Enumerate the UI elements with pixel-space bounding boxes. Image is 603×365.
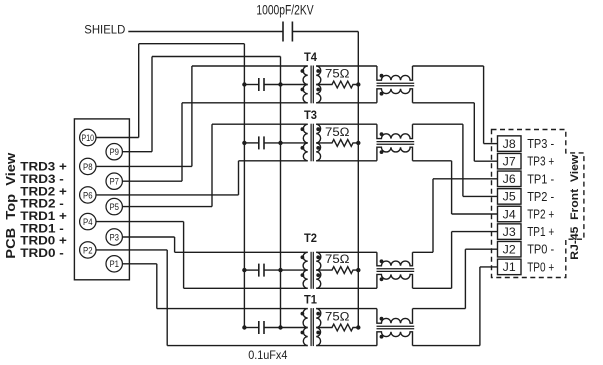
wire cap C4 left lead: [244, 84, 258, 86]
svg-text:P10: P10: [82, 133, 95, 144]
wire P1 to T1 top: [122, 263, 156, 265]
svg-text:T4: T4: [304, 50, 317, 64]
connector pin J7: [498, 153, 522, 169]
choke L4 common-mode: [377, 66, 413, 80]
svg-text:TP2 +: TP2 +: [527, 207, 554, 222]
svg-text:J7: J7: [503, 155, 516, 169]
wire P6 to T3 bottom: [96, 194, 239, 196]
wire right bus vertical: [280, 57, 282, 328]
svg-text:75Ω: 75Ω: [325, 125, 350, 139]
resistor R3 75ohm: [316, 140, 358, 147]
wire cap C3 right lead to center tap: [264, 142, 308, 144]
svg-text:P8: P8: [83, 162, 93, 173]
svg-text:P5: P5: [109, 202, 119, 213]
wire T3 secondary top to choke: [316, 123, 377, 125]
svg-text:TRD2 +: TRD2 +: [20, 186, 67, 198]
svg-text:P9: P9: [109, 147, 119, 158]
svg-text:TP0 +: TP0 +: [527, 259, 554, 274]
pin P3: [106, 229, 122, 245]
svg-text:P2: P2: [83, 245, 93, 256]
choke L2 common-mode: [377, 252, 413, 265]
wire P5 to T3 top: [122, 206, 212, 208]
capacitor C4 0.1uF: [258, 78, 260, 91]
connector pin J2: [498, 241, 522, 257]
svg-text:1000pF/2KV: 1000pF/2KV: [256, 1, 314, 17]
svg-text:T3: T3: [304, 108, 317, 122]
capacitor C2 0.1uF: [258, 264, 260, 277]
wire P2 to T1 bottom: [96, 249, 167, 251]
connector pin J6: [498, 171, 522, 187]
wire P10 to left cap bus: [96, 137, 139, 139]
svg-text:SHIELD: SHIELD: [84, 23, 125, 37]
choke L3 common-mode: [377, 124, 413, 138]
wire T3 choke top to J5: [413, 123, 463, 125]
wire P7 to T4 bottom: [122, 180, 182, 182]
svg-text:TRD0 +: TRD0 +: [20, 236, 67, 248]
transformer T3: [303, 124, 307, 161]
junction dot shield bus R1: [356, 325, 360, 329]
wire T4 secondary top to choke: [316, 65, 377, 67]
wire P4 to T2 bottom: [96, 221, 184, 223]
svg-text:TRD3 -: TRD3 -: [20, 174, 64, 186]
svg-text:J6: J6: [503, 172, 516, 186]
wire T4 secondary bottom to choke: [316, 102, 377, 104]
wire cap C4 right lead to center tap: [264, 84, 308, 86]
junction dot right bus T3: [278, 141, 282, 145]
wire P9 to right bus: [122, 151, 152, 153]
svg-text:P3: P3: [109, 232, 119, 243]
svg-text:TRD0 -: TRD0 -: [20, 248, 64, 260]
svg-text:J8: J8: [503, 137, 516, 151]
wire T1 choke bottom to J1: [413, 345, 480, 347]
junction dot shield bus R4: [356, 82, 360, 86]
svg-text:P4: P4: [83, 217, 93, 228]
resistor R2 75ohm: [316, 267, 358, 274]
wire cap C1 left lead: [244, 327, 258, 329]
wire T1 choke top to J2: [413, 308, 466, 310]
junction dot right bus T2: [278, 268, 282, 272]
PCB header block outline: [74, 119, 129, 280]
wire cap C2 right lead to center tap: [264, 269, 308, 271]
svg-text:TP1 -: TP1 -: [527, 171, 554, 186]
junction dot left bus T3: [242, 141, 246, 145]
svg-text:J3: J3: [503, 225, 516, 239]
svg-text:TP0 -: TP0 -: [527, 242, 554, 257]
wire shield bus vertical: [357, 32, 359, 328]
svg-text:75Ω: 75Ω: [325, 252, 350, 266]
junction dot shield bus R2: [356, 268, 360, 272]
wire T2 secondary bottom to choke: [316, 287, 377, 289]
svg-text:RJ-45 Front View: RJ-45 Front View: [569, 154, 581, 259]
connector pin J5: [498, 189, 522, 205]
junction dot left bus T1: [242, 325, 246, 329]
pin P6: [80, 187, 96, 203]
wire T1 secondary top to choke: [316, 308, 377, 310]
wire cap C2 left lead: [244, 269, 258, 271]
svg-text:T1: T1: [304, 293, 317, 307]
wire T2 secondary top to choke: [316, 251, 377, 253]
junction dot right bus T1: [278, 325, 282, 329]
svg-text:T2: T2: [304, 231, 317, 245]
svg-text:P6: P6: [83, 190, 93, 201]
pin P1: [106, 256, 122, 272]
wire SHIELD label to C5: [128, 31, 283, 33]
transformer T4: [303, 66, 308, 103]
svg-text:TRD3 +: TRD3 +: [20, 162, 67, 174]
capacitor C3 0.1uF: [258, 136, 260, 149]
junction dot left bus T2: [242, 268, 246, 272]
choke L1 common-mode: [377, 309, 413, 324]
svg-text:75Ω: 75Ω: [325, 67, 350, 81]
wire C5 to shield bus: [292, 31, 358, 33]
connector pin J3: [498, 224, 522, 240]
resistor R4 75ohm: [316, 81, 358, 88]
wire T2 choke top to J6: [413, 251, 434, 253]
wire P3 to T2 top: [122, 236, 174, 238]
svg-text:J4: J4: [503, 207, 516, 221]
wire T4 choke top to J8: [413, 65, 484, 67]
pin P4: [80, 213, 96, 229]
pin P8: [80, 158, 96, 174]
connector pin J4: [498, 206, 522, 222]
pin P10: [80, 129, 96, 145]
RJ-45 outline dashed: [492, 130, 584, 278]
wire T1 secondary bottom to choke: [316, 345, 377, 347]
svg-text:PCB Top View: PCB Top View: [4, 152, 18, 258]
wire P8 to T4 top: [96, 165, 192, 167]
transformer T1: [303, 309, 308, 346]
svg-text:TP3 +: TP3 +: [527, 154, 554, 169]
svg-text:P7: P7: [109, 177, 119, 188]
wire cap C3 left lead: [244, 142, 258, 144]
svg-text:TRD1 -: TRD1 -: [20, 223, 64, 235]
resistor R1 75ohm: [316, 324, 358, 331]
wire cap C1 right lead to center tap: [264, 327, 308, 329]
connector pin J8: [498, 136, 522, 152]
wire T2 choke bottom to J3: [413, 287, 452, 289]
pin P2: [80, 242, 96, 258]
capacitor C1 0.1uF: [258, 321, 260, 334]
wire left cap bus vertical: [243, 44, 245, 328]
svg-text:75Ω: 75Ω: [325, 310, 350, 324]
pin P5: [106, 198, 122, 214]
svg-text:TRD2 -: TRD2 -: [20, 199, 64, 211]
svg-text:TP3 -: TP3 -: [527, 136, 554, 151]
wire T3 secondary bottom to choke: [316, 160, 377, 162]
pin P9: [106, 144, 122, 160]
transformer T2: [303, 252, 308, 288]
wire T3 choke bottom to J4: [413, 160, 452, 162]
pin P7: [106, 173, 122, 189]
junction dot left bus T4: [242, 82, 246, 86]
svg-text:TP2 -: TP2 -: [527, 189, 554, 204]
svg-text:J1: J1: [503, 260, 516, 274]
svg-text:TP1 +: TP1 +: [527, 224, 554, 239]
svg-text:TRD1 +: TRD1 +: [20, 211, 67, 223]
svg-text:P1: P1: [109, 259, 119, 270]
svg-text:J5: J5: [503, 190, 516, 204]
svg-text:J2: J2: [503, 243, 516, 257]
junction dot shield bus R3: [356, 141, 360, 145]
connector pin J1: [498, 259, 522, 275]
wire T4 choke bottom to J7: [413, 102, 475, 104]
capacitor C5 1000pF/2KV: [282, 22, 284, 42]
junction dot right bus T4: [278, 82, 282, 86]
svg-text:0.1uFx4: 0.1uFx4: [248, 348, 287, 362]
